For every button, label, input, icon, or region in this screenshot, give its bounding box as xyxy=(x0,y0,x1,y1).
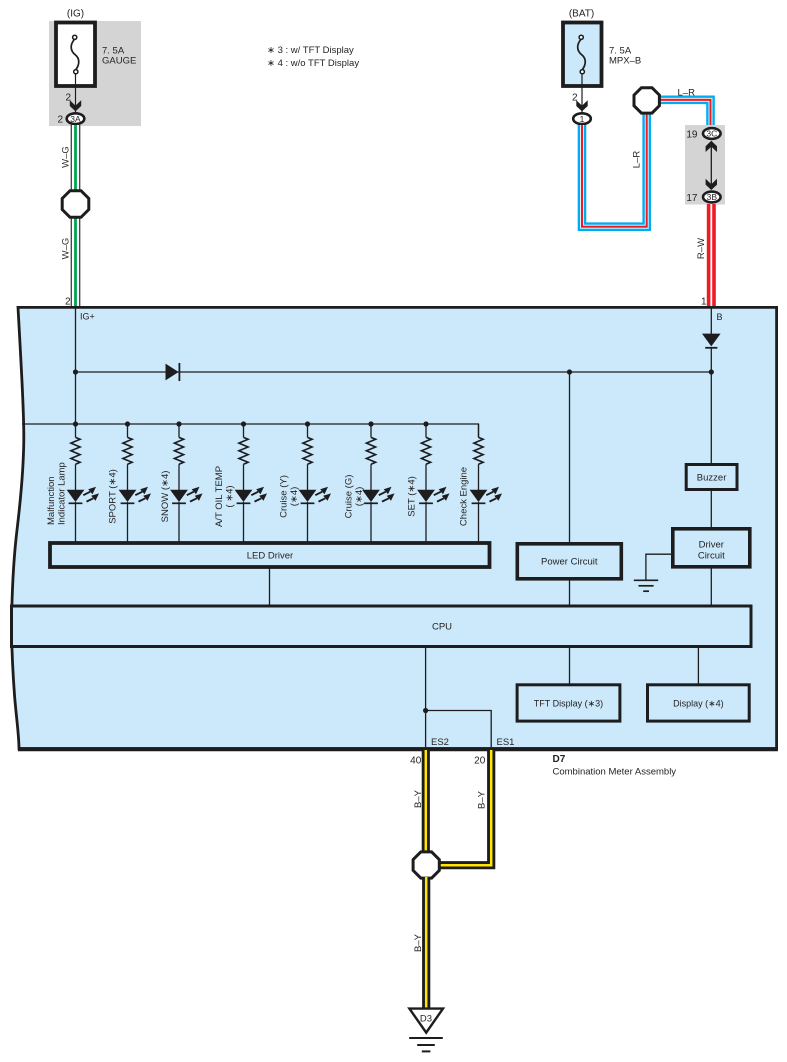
svg-text:3B: 3B xyxy=(707,192,718,202)
LED Check Engine xyxy=(470,490,488,502)
ground (driver circuit) xyxy=(646,554,671,580)
svg-text:( ∗4): ( ∗4) xyxy=(225,485,236,507)
svg-text:W–G: W–G xyxy=(60,238,71,260)
svg-text:Buzzer: Buzzer xyxy=(697,473,727,484)
svg-text:A/T OIL TEMP: A/T OIL TEMP xyxy=(214,466,225,527)
resistor (Check Engine branch) xyxy=(478,424,480,437)
svg-text:L–R: L–R xyxy=(678,88,696,99)
meter body bottom border xyxy=(18,747,778,751)
wire B column (below diode) xyxy=(710,348,712,464)
svg-text:Check Engine: Check Engine xyxy=(459,467,470,526)
junction dot IG+/rail xyxy=(73,369,78,374)
svg-text:MPX–B: MPX–B xyxy=(609,56,641,67)
LED Cruise (G) xyxy=(362,490,380,502)
wire junction to ES1 xyxy=(426,711,492,748)
svg-text:Cruise (Y): Cruise (Y) xyxy=(279,475,290,518)
junction dot rail/B column xyxy=(709,369,714,374)
wire power circuit to CPU xyxy=(569,579,571,605)
svg-text:W–G: W–G xyxy=(60,146,71,168)
svg-text:Malfunction: Malfunction xyxy=(46,476,57,525)
wire LED to LED driver (malfunction indicator lamp) xyxy=(75,502,77,542)
LED SNOW xyxy=(170,490,188,502)
LED SPORT xyxy=(119,490,137,502)
svg-text:D3: D3 xyxy=(420,1014,432,1025)
svg-text:Cruise (G): Cruise (G) xyxy=(344,475,355,519)
svg-text:3C: 3C xyxy=(706,129,717,139)
wire B-Y to ground xyxy=(422,877,430,1008)
Buzzer box xyxy=(686,465,737,490)
svg-text:40: 40 xyxy=(410,756,422,767)
wire resistor to LED (SNOW) xyxy=(178,464,180,490)
svg-text:SNOW (∗4): SNOW (∗4) xyxy=(160,471,171,523)
splice octagon (B-Y) xyxy=(413,852,439,878)
wire resistor to LED (Check Engine) xyxy=(478,464,480,490)
arrow down (to 3B) xyxy=(706,179,717,190)
splice octagon (W-G) xyxy=(62,191,89,218)
svg-text:∗ 4 : w/o TFT Display: ∗ 4 : w/o TFT Display xyxy=(267,58,359,69)
Display box xyxy=(648,685,750,721)
wire LED to LED driver (A/T OIL TEMP) xyxy=(243,502,245,542)
LED SET xyxy=(417,490,435,502)
svg-text:R–W: R–W xyxy=(696,238,707,259)
wire LED driver to CPU xyxy=(269,567,271,605)
svg-text:20: 20 xyxy=(474,756,486,767)
LED Driver box xyxy=(50,543,490,567)
junction dot ES2/ES1 xyxy=(423,708,428,713)
resistor (Cruise (G) branch) xyxy=(370,424,372,437)
TFT Display box xyxy=(517,685,620,721)
wire LED to LED driver (Cruise (G)) xyxy=(370,502,372,542)
wire LED to LED driver (SNOW) xyxy=(178,502,180,542)
svg-text:3A: 3A xyxy=(70,114,81,124)
arrow into connector 1 xyxy=(576,100,587,111)
wire LED to LED driver (SPORT) xyxy=(127,502,129,542)
wire CPU to ES junction xyxy=(425,647,427,748)
wire resistor to LED (Cruise (G)) xyxy=(370,464,372,490)
junction dot bus/Cruise (G) xyxy=(368,421,373,426)
wire resistor to LED (SET) xyxy=(425,464,427,490)
junction dot bus/SPORT xyxy=(125,421,130,426)
fuse F2 7.5A MPX-B xyxy=(563,23,602,87)
svg-text:Power Circuit: Power Circuit xyxy=(541,557,598,568)
diode D1 (rail) xyxy=(166,364,179,381)
svg-text:(BAT): (BAT) xyxy=(569,9,594,20)
resistor (A/T OIL TEMP branch) xyxy=(243,424,245,437)
wire CPU to TFT display xyxy=(569,647,571,685)
wire L-R from octagon to connector 3C xyxy=(657,100,711,127)
svg-text:GAUGE: GAUGE xyxy=(102,56,136,67)
combination meter assembly D7 body xyxy=(12,307,777,748)
junction dot bus/malfunction indicator lamp xyxy=(73,421,78,426)
connector 3A xyxy=(67,113,85,124)
junction block shading xyxy=(685,125,725,205)
svg-text:B–Y: B–Y xyxy=(413,933,424,952)
wire resistor to LED (SPORT) xyxy=(127,464,129,490)
svg-text:Driver: Driver xyxy=(699,540,724,551)
junction dot bus/SET xyxy=(423,421,428,426)
wire LED to LED driver (SET) xyxy=(425,502,427,542)
svg-text:2: 2 xyxy=(57,114,63,125)
connector 3C xyxy=(703,128,721,139)
wire buzzer to driver circuit xyxy=(710,490,712,528)
junction dot bus/A/T OIL TEMP xyxy=(241,421,246,426)
svg-text:Combination Meter Assembly: Combination Meter Assembly xyxy=(553,767,677,778)
svg-text:D7: D7 xyxy=(553,754,566,765)
svg-text:ES2: ES2 xyxy=(431,737,449,748)
svg-text:B: B xyxy=(717,312,723,322)
wire L-R from connector 1 loop to octagon xyxy=(582,112,647,227)
resistor (SNOW branch) xyxy=(178,424,180,437)
svg-text:17: 17 xyxy=(686,193,698,204)
wire rail to power circuit xyxy=(569,372,571,543)
wire horizontal rail y372 xyxy=(76,371,712,373)
junction dot bus/Cruise (Y) xyxy=(305,421,310,426)
wire IG+ column xyxy=(75,308,77,424)
ground symbol xyxy=(409,1037,443,1039)
Driver Circuit box xyxy=(673,529,750,567)
Power Circuit box xyxy=(517,544,621,579)
resistor (Cruise (Y) branch) xyxy=(307,424,309,437)
ground point D3 xyxy=(409,1009,443,1033)
svg-text:(∗4): (∗4) xyxy=(289,487,300,507)
wire fuse to connector 1 xyxy=(581,74,583,112)
svg-text:Display (∗4): Display (∗4) xyxy=(673,699,724,709)
wire resistor to LED (Cruise (Y)) xyxy=(307,464,309,490)
svg-text:ES1: ES1 xyxy=(497,737,515,748)
CPU box xyxy=(12,606,752,647)
resistor (SPORT branch) xyxy=(127,424,129,437)
connector 3B xyxy=(703,192,721,203)
svg-text:(∗4): (∗4) xyxy=(354,487,365,507)
LED malfunction indicator lamp xyxy=(67,490,85,502)
svg-text:Circuit: Circuit xyxy=(698,551,725,562)
fuse block shading (IG) xyxy=(49,21,141,126)
svg-text:∗ 3 : w/ TFT Display: ∗ 3 : w/ TFT Display xyxy=(267,45,354,56)
svg-text:B–Y: B–Y xyxy=(413,789,424,808)
splice octagon (L-R) xyxy=(634,88,659,113)
wire B-Y from ES1 xyxy=(437,750,491,865)
wire LED to LED driver (Cruise (Y)) xyxy=(307,502,309,542)
svg-text:B–Y: B–Y xyxy=(476,790,487,809)
wire B-Y from ES2 xyxy=(422,750,430,853)
junction dot bus/SNOW xyxy=(176,421,181,426)
resistor (SET branch) xyxy=(425,424,427,437)
arrow into connector 3A xyxy=(70,100,81,111)
svg-text:IG+: IG+ xyxy=(80,312,95,322)
wire LED bus y424 xyxy=(22,424,479,437)
wire resistor to LED (malfunction indicator lamp) xyxy=(75,464,77,490)
svg-text:1: 1 xyxy=(580,114,585,124)
wire resistor to LED (A/T OIL TEMP) xyxy=(243,464,245,490)
wire LED to LED driver (Check Engine) xyxy=(478,502,480,542)
svg-text:SET (∗4): SET (∗4) xyxy=(407,476,418,517)
wire fuse to connector 3A xyxy=(75,74,77,112)
wire B column (top) xyxy=(710,308,712,334)
wire CPU to display xyxy=(697,647,699,685)
junction dot rail/power circuit xyxy=(567,369,572,374)
svg-text:Indicator Lamp: Indicator Lamp xyxy=(56,462,67,525)
fuse F1 7.5A GAUGE xyxy=(56,23,95,87)
svg-text:TFT Display (∗3): TFT Display (∗3) xyxy=(534,699,603,709)
wire W-G from connector 3A to meter pin 2 xyxy=(71,125,81,306)
svg-text:LED Driver: LED Driver xyxy=(247,551,293,562)
link wire 3C to 3B xyxy=(710,146,712,186)
arrow up (to 3C) xyxy=(706,141,717,152)
svg-text:1: 1 xyxy=(701,297,707,308)
diode D2 (B column) xyxy=(702,334,721,347)
wire R-W from 3B to meter pin 1 xyxy=(707,204,716,306)
svg-text:SPORT (∗4): SPORT (∗4) xyxy=(108,469,119,524)
svg-text:19: 19 xyxy=(686,130,698,141)
wire driver circuit to CPU xyxy=(710,567,712,605)
resistor (malfunction indicator lamp branch) xyxy=(75,424,77,437)
connector 1 xyxy=(573,113,591,124)
svg-text:(IG): (IG) xyxy=(67,9,84,20)
svg-text:2: 2 xyxy=(65,297,71,308)
svg-text:CPU: CPU xyxy=(432,622,452,633)
LED Cruise (Y) xyxy=(299,490,317,502)
LED A/T OIL TEMP xyxy=(235,490,253,502)
svg-text:L–R: L–R xyxy=(631,151,642,169)
